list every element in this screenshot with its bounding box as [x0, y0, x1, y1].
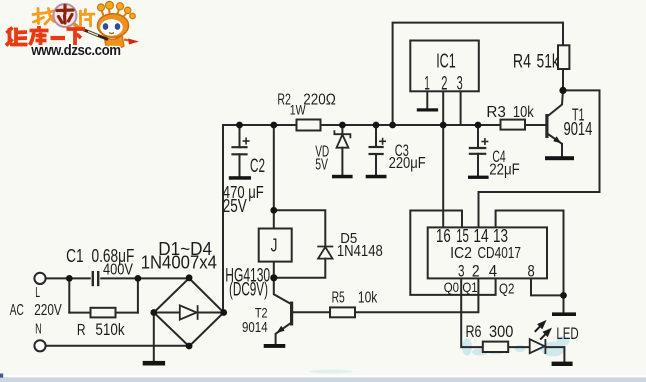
- wire bridge + output up to rail: [222, 125, 224, 313]
- capacitor C2 plates: [231, 147, 247, 154]
- svg-text:L: L: [35, 285, 40, 301]
- svg-text:15: 15: [456, 226, 469, 246]
- logo mascot antenna balls: [98, 1, 136, 19]
- resistor R4 box: [558, 45, 569, 69]
- svg-text:51k: 51k: [537, 52, 560, 73]
- node VD dot: [339, 122, 346, 129]
- wire LED cathode to ground: [545, 347, 564, 362]
- svg-text:10k: 10k: [358, 290, 378, 307]
- wire C4 top lead: [477, 125, 479, 148]
- svg-text:8: 8: [528, 262, 535, 281]
- node IC2 ground dot: [560, 292, 567, 299]
- logo mascot mouth: [109, 33, 114, 34]
- node C4 dot: [475, 122, 482, 129]
- resistor R3 box: [501, 120, 526, 130]
- svg-text:R4: R4: [513, 51, 531, 72]
- logo mascot brush stick: [83, 30, 108, 40]
- resistor R6 box: [483, 342, 508, 352]
- capacitor C4 plates: [469, 148, 487, 154]
- wire relay node to J coil top: [273, 210, 275, 228]
- wire shunt R right leg: [137, 278, 139, 312]
- svg-text:25V: 25V: [223, 196, 247, 216]
- svg-text:14: 14: [473, 226, 488, 246]
- wire bridge minus to ground: [153, 313, 155, 362]
- wire clock route to IC2 pin 14: [479, 192, 600, 227]
- capacitor C3 plates: [369, 147, 384, 154]
- watermark blue blob 4: [515, 345, 526, 352]
- resistor R5 box: [330, 307, 355, 317]
- wire T1 collector lead: [547, 90, 563, 116]
- ground bar LED: [552, 362, 573, 366]
- wire VD top lead: [341, 125, 343, 134]
- wire shunt R right link: [116, 312, 138, 314]
- logo hanzi pian orange: [81, 10, 95, 27]
- wire N terminal line: [46, 345, 190, 347]
- ground bar T1 emitter: [545, 156, 574, 160]
- svg-text:1N4148: 1N4148: [337, 243, 383, 260]
- ground bar T2: [264, 344, 286, 348]
- transistor T1 emitter arrow: [553, 136, 561, 143]
- logo hanzi zhao (find) orange: [33, 9, 54, 25]
- wire C2 bottom lead: [239, 154, 241, 176]
- logo hanzi xin (chip) inside magnifier dark red: [57, 6, 73, 24]
- capacitor C2 plus sign: [243, 138, 250, 145]
- wire bridge inner left: [154, 312, 180, 314]
- ground bar C3: [366, 175, 387, 179]
- wire T2 emitter to ground: [276, 323, 291, 344]
- svg-text:R: R: [77, 322, 86, 339]
- wire top feed horizontal: [393, 23, 563, 125]
- wire main V+ rail left segment: [223, 124, 297, 126]
- IC1 box U1: [410, 41, 479, 92]
- wire C3 bottom lead: [375, 154, 377, 175]
- node T2 collector dot: [270, 274, 277, 281]
- svg-text:2: 2: [472, 262, 480, 281]
- logo mascot face: [100, 19, 123, 36]
- wire rail down to relay node: [273, 125, 275, 210]
- zener diode VD: [334, 130, 350, 148]
- svg-text:IC1: IC1: [436, 50, 456, 72]
- wire IC2 pin 13 route to ground node: [496, 211, 564, 296]
- wire R3 to T1 base: [525, 124, 546, 126]
- resistor R2 box: [297, 120, 321, 131]
- svg-text:2: 2: [441, 74, 447, 95]
- relay J box: [259, 229, 292, 262]
- wire R6 to LED anode: [508, 346, 529, 348]
- diode D5: [317, 247, 333, 259]
- LED diode triangle: [530, 339, 546, 354]
- svg-text:300: 300: [489, 322, 513, 341]
- ground bar bridge: [143, 361, 165, 366]
- logo mascot head: [98, 14, 129, 38]
- transistor T2 emitter arrow: [277, 326, 285, 333]
- svg-text:R3: R3: [486, 104, 506, 121]
- wire J coil bottom to collector node of T2: [273, 262, 275, 278]
- wire T1 emitter to ground: [547, 134, 562, 157]
- watermark blue blob 7: [309, 370, 353, 374]
- wire IC1 pin 3 to rail: [460, 91, 462, 125]
- logo mascot brush stripe: [88, 32, 98, 36]
- resistor R box: [91, 308, 116, 318]
- svg-text:3: 3: [458, 262, 465, 281]
- bridge rectifier D1-D4 inner diode: [180, 305, 198, 320]
- wire C3 top lead: [375, 125, 377, 147]
- svg-text:400V: 400V: [103, 261, 134, 278]
- svg-text:5V: 5V: [315, 157, 328, 174]
- logo mascot eyes: [103, 23, 121, 30]
- logo hanzi wei red: [6, 28, 28, 46]
- transistor T2 base bar: [290, 302, 293, 326]
- ground bar C4: [468, 176, 489, 179]
- wire C4 bottom lead: [477, 154, 479, 176]
- wire IC2 pin 2 Q1 to R5: [355, 278, 478, 312]
- wire IC1 pin 1 to ground: [426, 91, 428, 108]
- svg-text:220μF: 220μF: [389, 155, 426, 172]
- terminal N: [34, 340, 45, 351]
- logo mascot body: [104, 35, 124, 50]
- svg-text:9014: 9014: [242, 319, 268, 336]
- wire VD bottom lead: [341, 148, 343, 175]
- svg-text:1W: 1W: [290, 102, 306, 118]
- watermark blue blob 5: [541, 342, 565, 357]
- watermark blue blob 6: [557, 336, 570, 346]
- svg-text:9014: 9014: [564, 119, 593, 139]
- svg-text:10k: 10k: [513, 104, 534, 121]
- svg-text:T2: T2: [255, 304, 268, 320]
- wire IC2 pin 8 to ground node: [531, 278, 564, 295]
- wire D5 bottom to T2 collector node: [274, 259, 326, 278]
- svg-text:13: 13: [493, 226, 508, 246]
- svg-text:Q1: Q1: [462, 279, 477, 295]
- capacitor C3 plus sign: [379, 138, 386, 145]
- node bridge top dot: [186, 274, 193, 281]
- wire bridge inner right: [198, 312, 224, 314]
- node relay top dot: [270, 207, 277, 214]
- wire L terminal line: [46, 277, 90, 279]
- node L dot: [66, 275, 73, 282]
- node bridge bottom dot: [186, 343, 193, 350]
- svg-text:AC: AC: [10, 302, 24, 319]
- svg-text:C2: C2: [250, 156, 265, 177]
- logo mascot antenna stems: [101, 7, 128, 18]
- wire shunt R left link: [69, 312, 90, 314]
- wire R5 to T2 base: [292, 311, 330, 313]
- logo hanzi ku red: [30, 26, 49, 45]
- ground bar IC2 pin8: [552, 312, 576, 316]
- terminal L: [34, 273, 45, 284]
- node relay rail dot: [270, 122, 277, 129]
- svg-text:Q0: Q0: [444, 279, 459, 295]
- node IC pins dot: [440, 122, 447, 129]
- svg-text:1N4007x4: 1N4007x4: [141, 251, 217, 272]
- svg-text:Q2: Q2: [499, 281, 514, 298]
- svg-text:(DC9V): (DC9V): [229, 279, 268, 300]
- IC2 box CD4017: [428, 227, 547, 278]
- node bridge left dot: [150, 309, 157, 316]
- svg-text:LED: LED: [556, 324, 578, 343]
- logo magnifier ring: [54, 4, 81, 29]
- svg-text:510k: 510k: [95, 320, 125, 339]
- watermark blue blob 2: [472, 349, 488, 356]
- node bridge right dot: [220, 309, 227, 316]
- logo hanzi yi red: [51, 36, 66, 40]
- wire rail to IC2 pin 16: [442, 125, 444, 227]
- node C1 right dot: [135, 275, 142, 282]
- watermark blue blob 1: [462, 339, 472, 356]
- wire shunt R left leg: [68, 278, 70, 312]
- wire ground node to ground bar: [563, 295, 565, 312]
- bottom blue strip: [0, 375, 646, 377]
- wire IC2 pin 15 to pin 4 reset route: [410, 211, 495, 295]
- wire R4 bottom to T1 collector node: [562, 69, 564, 90]
- svg-text:4: 4: [489, 262, 497, 281]
- svg-text:C1: C1: [66, 246, 84, 266]
- capacitor C1 plates: [93, 271, 98, 286]
- svg-text:220V: 220V: [34, 302, 62, 319]
- svg-text:N: N: [35, 321, 42, 338]
- node C3 dot: [373, 122, 380, 129]
- capacitor C4 plus sign: [481, 138, 488, 145]
- node C2 dot: [236, 122, 243, 129]
- ground bar C2: [229, 176, 251, 180]
- logo mascot red tip: [128, 39, 139, 45]
- svg-text:16: 16: [436, 226, 451, 246]
- node top feed dot: [389, 122, 396, 129]
- svg-text:CD4017: CD4017: [478, 245, 522, 262]
- svg-text:220Ω: 220Ω: [303, 91, 336, 108]
- ground bar IC1 pin1: [417, 108, 438, 111]
- svg-text:www.dzsc.com: www.dzsc.com: [30, 42, 120, 59]
- wire C2 top lead: [239, 125, 241, 147]
- wire bridge diamond edges: [154, 278, 224, 346]
- svg-text:J: J: [271, 234, 278, 255]
- wire IC2 pin 3 Q0 down to R6: [461, 278, 483, 347]
- svg-text:R5: R5: [332, 290, 345, 307]
- watermark blue blob 3: [485, 346, 507, 355]
- wire T2 collector lead: [274, 278, 291, 304]
- wire collector node to clock right leg: [563, 90, 600, 192]
- wire relay node to D5 top: [274, 210, 326, 246]
- svg-text:IC2: IC2: [450, 245, 472, 262]
- svg-text:22μF: 22μF: [489, 162, 520, 179]
- ground bar VD: [332, 175, 353, 179]
- wire rail R2 to R3 segment: [321, 124, 501, 126]
- transistor T1 base bar: [545, 114, 548, 138]
- logo hanzi xia red: [67, 29, 86, 45]
- wire IC1 pin 2 to rail: [442, 91, 444, 125]
- svg-text:3: 3: [457, 73, 463, 94]
- node T1 collector dot: [559, 87, 566, 94]
- logo mascot right arm: [124, 40, 133, 42]
- svg-text:R6: R6: [466, 322, 482, 341]
- wire C1 to bridge top: [101, 277, 189, 279]
- LED emission arrows: [535, 322, 550, 340]
- svg-text:1: 1: [424, 74, 430, 95]
